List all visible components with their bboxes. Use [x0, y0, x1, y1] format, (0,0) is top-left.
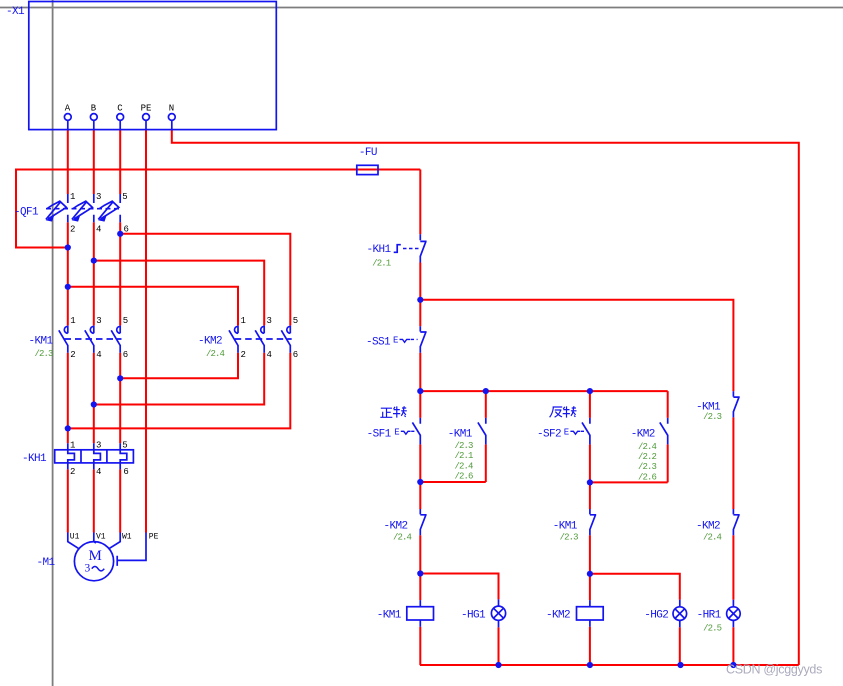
svg-text:6: 6	[293, 350, 298, 360]
svg-text:/2.1: /2.1	[372, 259, 391, 269]
svg-text:-KM1: -KM1	[448, 429, 473, 441]
svg-text:/2.6: /2.6	[455, 472, 474, 482]
svg-text:/2.4: /2.4	[455, 461, 474, 471]
svg-text:E: E	[564, 428, 569, 438]
svg-text:/2.4: /2.4	[638, 442, 657, 452]
svg-text:4: 4	[96, 467, 101, 477]
svg-text:/2.5: /2.5	[703, 624, 722, 634]
svg-text:3: 3	[96, 192, 101, 202]
svg-text:C: C	[117, 104, 123, 114]
svg-text:/2.4: /2.4	[206, 349, 225, 359]
svg-text:A: A	[65, 104, 71, 114]
svg-text:-KM2: -KM2	[696, 521, 720, 533]
svg-text:B: B	[91, 104, 97, 114]
svg-text:V1: V1	[96, 533, 106, 542]
svg-text:PE: PE	[141, 104, 152, 114]
svg-text:-FU: -FU	[359, 147, 377, 159]
svg-text:-SF2: -SF2	[537, 429, 561, 441]
svg-text:-SF1: -SF1	[367, 429, 392, 441]
svg-text:3: 3	[96, 316, 101, 326]
svg-text:4: 4	[96, 225, 101, 235]
svg-text:1: 1	[70, 192, 75, 202]
svg-text:3: 3	[85, 563, 91, 575]
svg-text:6: 6	[124, 225, 129, 235]
svg-text:/2.4: /2.4	[393, 533, 412, 543]
svg-text:5: 5	[123, 316, 128, 326]
svg-text:3: 3	[96, 441, 101, 451]
svg-text:-KM2: -KM2	[546, 610, 570, 622]
svg-text:-SS1: -SS1	[366, 337, 391, 349]
svg-text:2: 2	[241, 350, 246, 360]
svg-text:4: 4	[96, 350, 101, 360]
svg-text:/2.3: /2.3	[638, 462, 657, 472]
svg-text:-M1: -M1	[37, 557, 56, 569]
svg-text:E: E	[393, 336, 398, 346]
svg-text:-KM1: -KM1	[553, 521, 578, 533]
svg-text:-QF1: -QF1	[14, 207, 39, 219]
svg-text:5: 5	[122, 441, 127, 451]
svg-text:2: 2	[70, 350, 75, 360]
svg-text:2: 2	[70, 225, 75, 235]
svg-text:6: 6	[123, 467, 128, 477]
svg-text:/2.1: /2.1	[455, 451, 474, 461]
svg-text:5: 5	[122, 192, 127, 202]
svg-text:1: 1	[70, 441, 75, 451]
svg-text:/2.3: /2.3	[455, 441, 474, 451]
svg-text:1: 1	[70, 316, 75, 326]
svg-text:CSDN @jcggyyds: CSDN @jcggyyds	[726, 663, 822, 677]
svg-text:/2.4: /2.4	[703, 533, 722, 543]
svg-text:/2.2: /2.2	[638, 452, 657, 462]
svg-text:-HR1: -HR1	[697, 610, 722, 622]
svg-text:-HG1: -HG1	[461, 610, 486, 622]
svg-text:/2.3: /2.3	[35, 349, 54, 359]
svg-text:M: M	[89, 548, 102, 564]
svg-text:/2.6: /2.6	[638, 472, 657, 482]
svg-text:-HG2: -HG2	[644, 610, 668, 622]
svg-text:E: E	[394, 428, 399, 438]
svg-text:3: 3	[267, 316, 272, 326]
svg-text:PE: PE	[149, 533, 159, 542]
svg-text:4: 4	[267, 350, 272, 360]
svg-text:6: 6	[123, 350, 128, 360]
svg-text:N: N	[169, 104, 174, 114]
svg-text:-KM2: -KM2	[631, 429, 655, 441]
svg-text:W1: W1	[122, 533, 132, 542]
svg-text:5: 5	[293, 316, 298, 326]
svg-text:-KM1: -KM1	[29, 336, 54, 348]
svg-text:-KH1: -KH1	[367, 244, 392, 256]
svg-text:/2.3: /2.3	[703, 412, 722, 422]
svg-text:U1: U1	[70, 533, 80, 542]
svg-text:-X1: -X1	[6, 6, 25, 18]
svg-text:-KM1: -KM1	[377, 610, 402, 622]
svg-text:2: 2	[70, 467, 75, 477]
svg-text:-KM2: -KM2	[198, 336, 222, 348]
svg-text:-KM2: -KM2	[384, 521, 408, 533]
svg-text:-KH1: -KH1	[22, 453, 47, 465]
svg-text:/2.3: /2.3	[560, 533, 579, 543]
svg-text:1: 1	[241, 316, 246, 326]
